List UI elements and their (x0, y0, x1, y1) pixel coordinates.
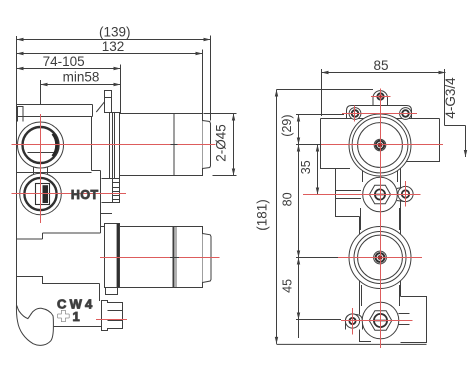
svg-text:1: 1 (73, 309, 80, 324)
svg-text:35: 35 (299, 160, 313, 174)
svg-text:2-Ø45: 2-Ø45 (214, 124, 229, 162)
svg-text:(181): (181) (255, 199, 270, 231)
svg-text:45: 45 (281, 279, 295, 293)
svg-text:(29): (29) (280, 114, 294, 136)
svg-text:85: 85 (373, 58, 388, 73)
svg-text:HOT: HOT (71, 188, 99, 202)
svg-text:min58: min58 (63, 70, 100, 85)
svg-text:80: 80 (281, 192, 295, 206)
svg-text:132: 132 (102, 39, 125, 54)
svg-text:74-105: 74-105 (43, 54, 85, 69)
svg-text:(139): (139) (99, 25, 131, 40)
svg-text:4-G3/4: 4-G3/4 (443, 77, 458, 119)
